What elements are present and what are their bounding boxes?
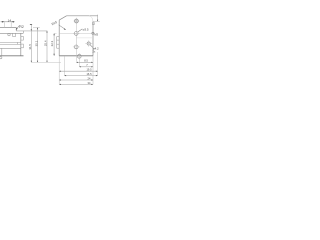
left view tab lower	[21, 44, 24, 48]
left view top edge	[0, 26, 16, 28]
svg-text:35.1: 35.1	[34, 40, 38, 46]
mid dimension x=54.1 top arrow	[54, 33, 55, 35]
hole D crosshair horizontal	[85, 43, 92, 45]
extension left edge below	[58, 56, 60, 85]
top dimension extension right	[10, 22, 12, 27]
left view lip right edge	[22, 31, 24, 33]
front view bend line	[59, 32, 93, 34]
top dimension line	[1, 21, 15, 23]
left view flange bottom y=33.3	[0, 32, 23, 34]
extension right edge below	[92, 56, 94, 85]
left view bottom-left vertical	[1, 48, 3, 56]
svg-text:25.4: 25.4	[44, 40, 48, 46]
front view top edge and right extension	[67, 15, 98, 17]
svg-text:16.5: 16.5	[86, 72, 92, 76]
mid dimension x=31.3 top text dash	[30, 23, 32, 26]
top dimension left arrow	[2, 21, 5, 22]
svg-text:⌀3.5: ⌀3.5	[83, 28, 89, 32]
mid dimension x=31.3 bottom arrow	[31, 61, 32, 63]
top-left radius leader line	[59, 25, 66, 30]
hole B crosshair	[73, 32, 80, 34]
front view notch tick 3	[57, 43, 60, 45]
svg-text:12: 12	[92, 22, 96, 26]
front view left notch vertical	[56, 37, 58, 49]
stack dim line 1	[76, 61, 93, 63]
svg-text:22.3: 22.3	[50, 40, 54, 46]
hole F crosshair vertical	[78, 53, 80, 60]
left view small circle	[8, 33, 10, 35]
top dimension right arrow	[11, 21, 14, 22]
svg-text:14: 14	[8, 18, 12, 22]
stack dim line 4	[64, 75, 97, 77]
hole C crosshair	[73, 46, 80, 48]
front view notch tick 2	[57, 39, 60, 41]
edge circle E	[92, 32, 94, 34]
front view right edge	[92, 21, 94, 55]
front view corner arc	[89, 16, 93, 22]
right corner extension y=21.4	[93, 20, 100, 22]
small circle below bottom left corner	[0, 57, 2, 59]
left view step vertical	[15, 27, 17, 31]
left view line y=44.4	[0, 43, 21, 45]
hole A	[75, 19, 79, 23]
faint construction line y=38	[76, 37, 93, 39]
hole D	[87, 42, 90, 45]
front view notch tick 4	[57, 47, 60, 49]
mid dimension x=37.5 top arrow	[37, 28, 38, 30]
left view bottom edge	[0, 55, 24, 57]
left view small block	[13, 33, 16, 36]
hole B leader	[78, 29, 82, 32]
extension y=27.4 for x=37.5 dim	[33, 26, 40, 28]
stack dim line 2	[79, 66, 93, 68]
left view line y=42.4	[0, 41, 21, 43]
hole B	[74, 32, 78, 36]
vertical centerline through holes	[75, 18, 77, 62]
right corner dim arrow	[97, 20, 98, 22]
stack dim line 3	[59, 70, 97, 72]
left view step line / extension y=30.9	[16, 30, 47, 32]
extension x=79.3 below	[78, 60, 80, 67]
left view line y=48.3	[0, 47, 21, 49]
top-left radius leader arrow	[64, 28, 66, 29]
extension x=64.4 below	[63, 56, 65, 75]
hole D crosshair vertical	[88, 40, 90, 46]
mid dimension x=54.1 line	[53, 33, 55, 55]
stack dim line 5	[59, 79, 93, 81]
extension x=97.6 lower	[97, 52, 99, 76]
svg-text:8.5: 8.5	[84, 59, 88, 63]
right corner dimension line	[97, 15, 99, 22]
hole F crosshair horizontal	[77, 55, 83, 57]
mid dimension x=54.1 bottom arrow	[54, 54, 55, 56]
bottom edge hole F	[77, 54, 81, 58]
left view slot tick	[17, 42, 19, 44]
svg-text:31.5: 31.5	[28, 44, 32, 50]
mid dimension x=31.3 upper arrow	[31, 29, 32, 31]
svg-text:R2: R2	[19, 25, 23, 29]
mid dimension x=47 line	[46, 31, 48, 63]
left view radius leader line	[16, 25, 20, 29]
hole A thread marks	[75, 20, 78, 23]
svg-text:19.5: 19.5	[86, 68, 92, 72]
baseline y=62.4 left segment	[31, 61, 61, 63]
top dimension extension left	[4, 22, 6, 27]
front view notch tick 1	[57, 36, 60, 38]
mid dimension x=47 bottom arrow	[46, 61, 47, 63]
left view radius leader arrow	[16, 28, 18, 30]
mid dimension x=37.5 line	[37, 28, 39, 63]
hole D leader	[90, 45, 93, 48]
front view chamfer top-left	[59, 16, 66, 20]
front view left edge	[58, 20, 60, 56]
mid dimension x=54.1 ext tick top	[54, 32, 57, 34]
stack dim line 6	[59, 83, 93, 85]
mid dimension x=47 top arrow	[46, 31, 47, 33]
mid dimension x=37.5 bottom arrow	[37, 61, 38, 63]
left view right edge	[20, 33, 22, 56]
mid dimension x=31.3 line	[30, 25, 32, 62]
front view bottom edge	[59, 55, 93, 57]
svg-text:M3: M3	[94, 33, 98, 37]
left view tab upper	[21, 36, 24, 40]
hole A crosshair	[74, 20, 80, 22]
hole C	[74, 45, 78, 49]
